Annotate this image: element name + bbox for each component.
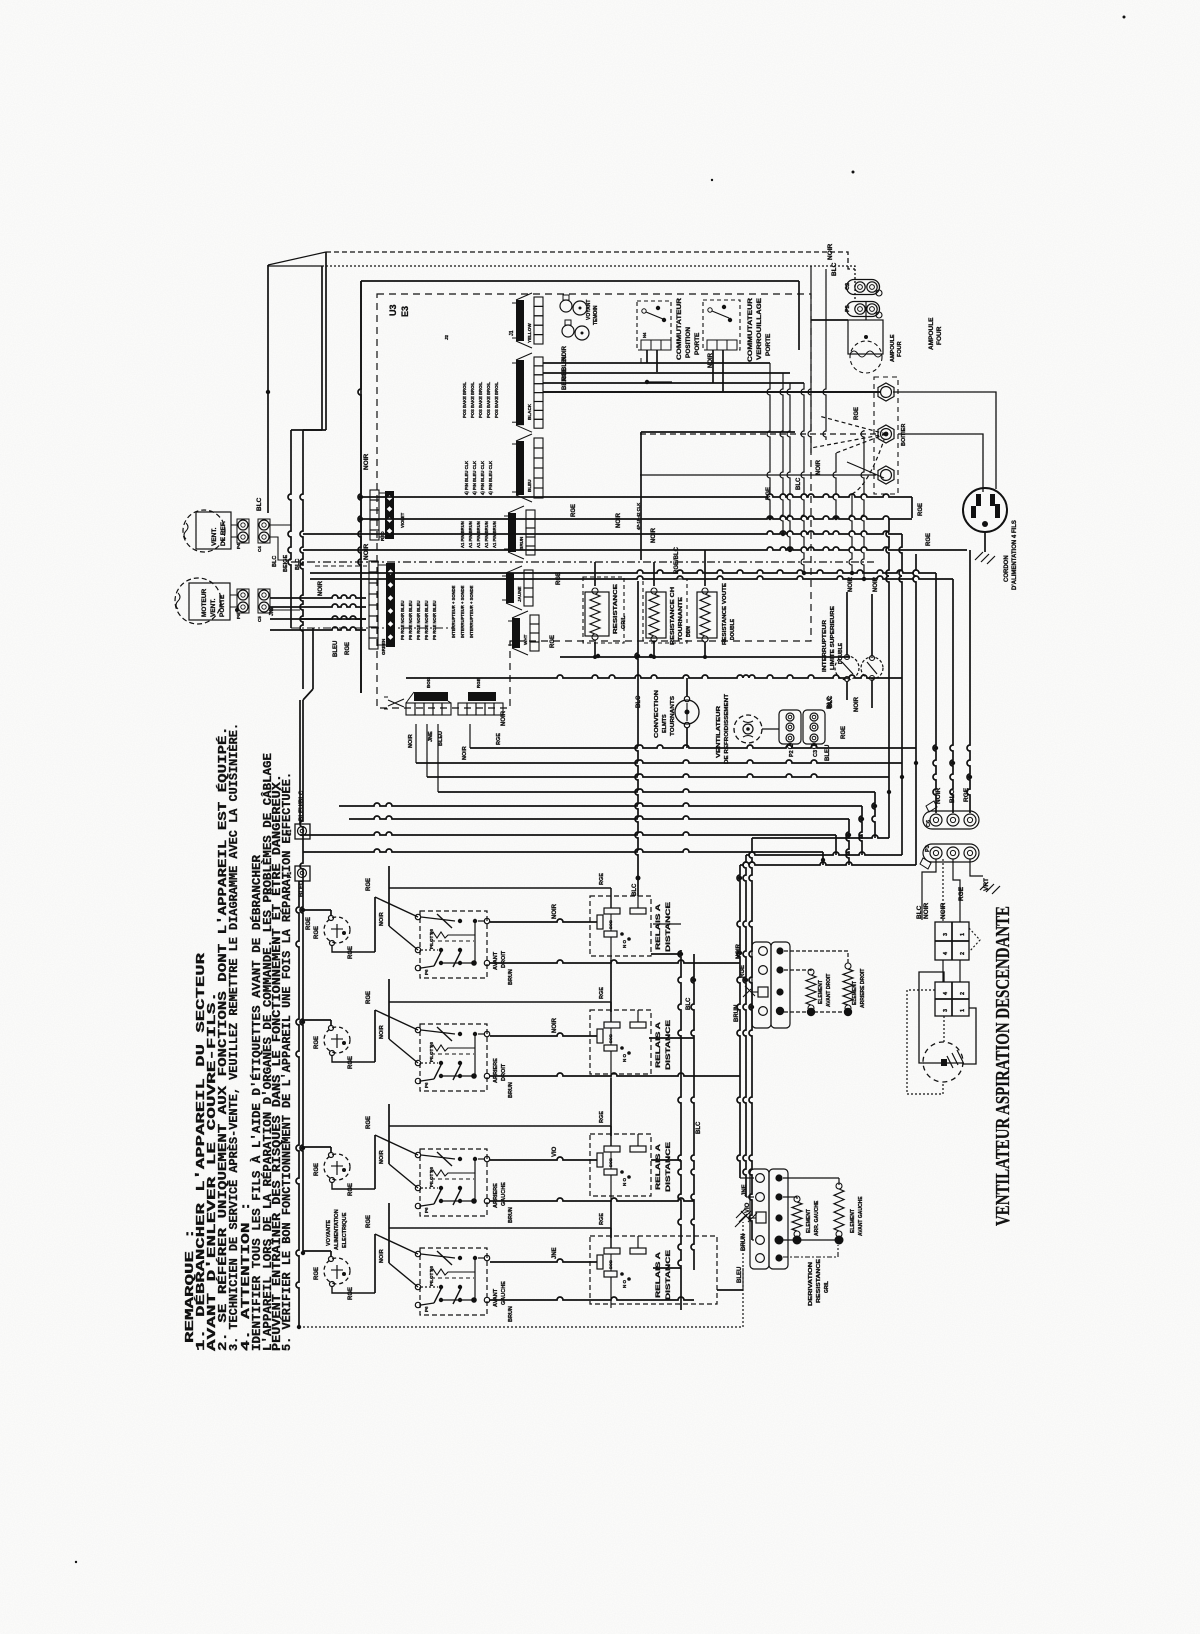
- svg-text:E3: E3: [400, 306, 410, 317]
- svg-text:FOUR: FOUR: [936, 326, 943, 345]
- resistor RESISTANCE VOUTE DOUBLE: [697, 592, 717, 638]
- svg-text:RGE: RGE: [366, 1215, 372, 1228]
- lamp VOYANT ALIMENTATION unit 4: [324, 1258, 350, 1284]
- svg-text:C3: C3: [813, 750, 819, 757]
- svg-text:U3: U3: [388, 304, 398, 316]
- wires to plug: [893, 392, 996, 489]
- svg-text:JAUNE: JAUNE: [517, 586, 522, 602]
- mid band horizontal bus wires: [361, 494, 912, 497]
- control board U3 dashed box: [377, 294, 811, 708]
- svg-text:ARRIERE: ARRIERE: [493, 1058, 499, 1083]
- wire left border path: [312, 628, 314, 689]
- switch PLAQUE P6 unit 4: [420, 1248, 487, 1315]
- svg-text:DOUBLE: DOUBLE: [838, 642, 844, 664]
- svg-text:RGE: RGE: [599, 1111, 605, 1123]
- indicator lamps VOYANT TEMOIN: [560, 300, 572, 312]
- svg-text:TOURNANTE: TOURNANTE: [678, 596, 684, 641]
- svg-text:P9 RGE NOIR BLEU: P9 RGE NOIR BLEU: [432, 600, 437, 640]
- svg-text:JNE: JNE: [428, 731, 434, 742]
- svg-text:BLACK: BLACK: [527, 403, 532, 420]
- wire relay bus verticals BLC: [678, 950, 681, 1310]
- svg-text:3. TECHNICIEN DE SERVICE APRÈ: 3. TECHNICIEN DE SERVICE APRÈS-VENTE, VE…: [227, 723, 241, 1351]
- svg-text:BRUN: BRUN: [508, 1306, 514, 1322]
- wires NOIR BLC RGE to connector C6: [933, 573, 936, 813]
- svg-text:RGE: RGE: [599, 987, 605, 999]
- svg-text:JNE: JNE: [742, 1184, 748, 1196]
- svg-text:RESISTANCE CH: RESISTANCE CH: [670, 586, 676, 645]
- svg-text:DROIT: DROIT: [501, 1063, 507, 1081]
- svg-text:GAUCHE: GAUCHE: [501, 1281, 507, 1305]
- svg-text:FOUR: FOUR: [897, 341, 903, 357]
- connector element block right + ELEMENT AVANT DROIT / ARRIERE DROIT resistors: [752, 942, 771, 1028]
- svg-text:VOYANT: VOYANT: [586, 300, 592, 320]
- svg-text:C1: C1: [287, 829, 293, 836]
- svg-text:BLC: BLC: [916, 905, 923, 919]
- svg-text:P6: P6: [424, 1207, 429, 1213]
- svg-text:VENTILATEUR: VENTILATEUR: [716, 706, 722, 758]
- svg-text:GRIL: GRIL: [621, 615, 627, 629]
- switch PLAQUE P6 unit 1: [420, 911, 487, 978]
- svg-text:4) PIN BLEU CLK: 4) PIN BLEU CLK: [472, 461, 477, 495]
- wires switch unit 2 to relay and element bus: [389, 1001, 611, 1003]
- svg-text:P6: P6: [424, 969, 429, 975]
- wire BLC junction node: [635, 581, 638, 878]
- svg-text:PORTE: PORTE: [219, 594, 226, 617]
- svg-text:DISTANCE: DISTANCE: [665, 901, 672, 952]
- svg-text:N O: N O: [622, 1178, 627, 1187]
- svg-text:N O: N O: [622, 1054, 627, 1063]
- connector BLEU strip: [534, 438, 543, 448]
- svg-text:DBN: DBN: [686, 626, 692, 637]
- motor MOTEUR VENT PORTE with connectors P5 C5: [175, 578, 221, 624]
- connector RED strip: [370, 490, 379, 500]
- svg-text:P4: P4: [236, 543, 241, 549]
- connector JAUNE strip: [524, 570, 533, 579]
- svg-text:RGE: RGE: [348, 1287, 354, 1300]
- svg-text:N O: N O: [622, 940, 627, 949]
- wire left bus verticals: [321, 266, 323, 430]
- svg-text:P1: P1: [287, 872, 293, 878]
- svg-text:INTERRUPTEUR + SONDE: INTERRUPTEUR + SONDE: [460, 585, 465, 638]
- switch PLAQUE P6 unit 2: [420, 1024, 487, 1091]
- svg-text:RGE: RGE: [306, 917, 312, 930]
- svg-text:P5: P5: [236, 613, 241, 619]
- connector element block left + ELEMENT ARR GAUCHE / AVANT GAUCHE resistors: [750, 1169, 769, 1269]
- relay RELAIS A DISTANCE unit 1: [590, 896, 651, 956]
- svg-text:CORDON: CORDON: [1004, 555, 1010, 582]
- svg-text:VENT.: VENT.: [211, 527, 218, 546]
- svg-text:NOIR: NOIR: [501, 710, 507, 726]
- svg-text:BLEU: BLEU: [438, 731, 444, 746]
- connector J1 YELLOW strip: [534, 297, 543, 306]
- wires switch unit 1 to relay and element bus: [389, 887, 611, 889]
- svg-text:N O: N O: [622, 1280, 627, 1289]
- relay RELAIS A DISTANCE unit 4: [590, 1236, 717, 1304]
- svg-text:NOIR: NOIR: [651, 527, 657, 543]
- svg-text:DISTANCE: DISTANCE: [665, 1141, 672, 1192]
- scan speck marks: [711, 179, 713, 181]
- svg-text:GRIL: GRIL: [824, 1281, 830, 1293]
- motor CONVECTION ELEMENTS TOURNANTS fan: [675, 700, 699, 724]
- svg-text:DERIVATION: DERIVATION: [808, 1261, 814, 1306]
- wires switch unit 3 to relay and element bus: [389, 1125, 611, 1127]
- svg-text:ELEMENT: ELEMENT: [806, 1209, 812, 1233]
- svg-text:ARRIERE DROIT: ARRIERE DROIT: [860, 969, 866, 1008]
- svg-text:4) PIN BLEU CLK: 4) PIN BLEU CLK: [464, 461, 469, 495]
- svg-text:P6: P6: [424, 1082, 429, 1088]
- svg-text:BRUN: BRUN: [734, 1005, 740, 1022]
- connector BLACK strip: [534, 357, 543, 366]
- control board E3 outline: [361, 280, 799, 282]
- svg-text:RGE: RGE: [599, 1213, 605, 1225]
- switch INTERRUPTEUR LIMITE SUPERIEURE DOUBLE: [835, 656, 859, 680]
- connector B1 bottom strip: [414, 692, 448, 701]
- wire bundle motors to GREEN strip: [270, 595, 366, 598]
- motor VENTILATEUR DE REFROIDISSEMENT + connectors P2 C3: [734, 715, 762, 743]
- connector GREEN strip: [369, 561, 378, 572]
- svg-text:RGE: RGE: [854, 407, 860, 420]
- svg-text:NOIR: NOIR: [854, 696, 860, 712]
- junction dots: [768, 516, 772, 520]
- svg-text:AVANT: AVANT: [493, 1288, 499, 1307]
- svg-text:C6: C6: [926, 820, 932, 827]
- svg-text:CONVECTION: CONVECTION: [654, 690, 660, 738]
- svg-text:J1: J1: [509, 330, 515, 336]
- svg-text:3: 3: [943, 933, 949, 936]
- svg-text:RELAIS A: RELAIS A: [655, 1252, 662, 1298]
- svg-text:RGE: RGE: [963, 787, 970, 802]
- svg-text:ARRIERE: ARRIERE: [493, 1183, 499, 1208]
- svg-text:BEIGE: BEIGE: [562, 371, 568, 390]
- svg-text:POS BAKE BROIL: POS BAKE BROIL: [462, 381, 467, 418]
- svg-text:RGE: RGE: [314, 1036, 320, 1049]
- svg-text:1: 1: [960, 1009, 966, 1012]
- svg-text:2: 2: [960, 992, 966, 995]
- svg-text:AVANT GAUCHE: AVANT GAUCHE: [858, 1196, 864, 1236]
- svg-text:VENTILATEUR ASPIRATION DESCEND: VENTILATEUR ASPIRATION DESCENDANTE: [992, 906, 1014, 1226]
- svg-text:VIO: VIO: [552, 1146, 558, 1157]
- vertical wires door-switch to mid band: [767, 363, 770, 518]
- svg-text:C4: C4: [257, 546, 262, 552]
- svg-text:RGE: RGE: [314, 926, 320, 939]
- svg-text:1: 1: [960, 933, 966, 936]
- svg-text:ELMTS: ELMTS: [662, 714, 668, 733]
- svg-text:ELECTRIQUE: ELECTRIQUE: [342, 1212, 348, 1248]
- svg-text:NOIR: NOIR: [318, 580, 324, 596]
- svg-text:DROIT: DROIT: [501, 950, 507, 968]
- svg-text:BRUN: BRUN: [508, 1207, 514, 1223]
- terminal block BOITIER: [874, 377, 898, 494]
- svg-text:RGE: RGE: [314, 1163, 320, 1176]
- svg-text:2: 2: [960, 952, 966, 955]
- wire BLC top bus: [322, 266, 855, 302]
- svg-text:BLEU: BLEU: [333, 641, 339, 657]
- connector C1 P1 BLEU/BLC: [295, 824, 310, 839]
- svg-text:RGE: RGE: [366, 1116, 372, 1129]
- svg-text:NOIR: NOIR: [827, 243, 834, 260]
- svg-text:INTERRUPTEUR + SONDE: INTERRUPTEUR + SONDE: [469, 585, 474, 638]
- svg-text:RGE: RGE: [366, 878, 372, 891]
- svg-text:RELAIS A: RELAIS A: [655, 1144, 662, 1190]
- svg-text:TOURNANTS: TOURNANTS: [670, 696, 676, 736]
- svg-text:DISTANCE: DISTANCE: [665, 1019, 672, 1070]
- svg-text:RGE: RGE: [841, 726, 847, 739]
- svg-text:AMPOULE: AMPOULE: [890, 334, 896, 362]
- svg-text:RELAIS A: RELAIS A: [655, 904, 662, 950]
- resistor RESISTANCE CHALEUR TOURNANTE: [643, 579, 687, 643]
- wire fan from boitier nut: [819, 416, 886, 434]
- svg-text:BLEU: BLEU: [299, 881, 305, 897]
- svg-text:P3: P3: [925, 845, 931, 852]
- svg-text:NOIR: NOIR: [363, 453, 370, 470]
- svg-text:VERROUILLAGE: VERROUILLAGE: [756, 297, 763, 360]
- wire left bus hooks: [268, 265, 322, 267]
- svg-text:BLEU: BLEU: [825, 745, 831, 761]
- svg-text:NOIR: NOIR: [552, 903, 558, 919]
- svg-text:POS BAKE BROIL: POS BAKE BROIL: [478, 381, 483, 418]
- svg-text:4) PIN BLEU CLK: 4) PIN BLEU CLK: [480, 461, 485, 495]
- svg-text:RESISTANCE VOUTE: RESISTANCE VOUTE: [722, 582, 728, 645]
- svg-text:RGE: RGE: [314, 1267, 320, 1280]
- wires B1 B2 feeders and staircase bus: [469, 724, 471, 748]
- svg-text:BLC: BLC: [831, 262, 838, 276]
- svg-text:BRUN: BRUN: [508, 1082, 514, 1098]
- svg-text:NOIR: NOIR: [923, 902, 930, 919]
- wires switch unit 4 to relay and element bus: [389, 1227, 611, 1229]
- svg-text:INTERRUPTEUR + SONDE: INTERRUPTEUR + SONDE: [451, 585, 456, 638]
- svg-text:POS BAKE BROIL: POS BAKE BROIL: [470, 381, 475, 418]
- svg-text:BLC: BLC: [696, 1121, 702, 1134]
- svg-text:P9 RGE NOIR BLEU: P9 RGE NOIR BLEU: [400, 600, 405, 640]
- plug CORDON D ALIMENTATION with ground: [963, 488, 1007, 532]
- svg-text:4) PIN BLEU CLK: 4) PIN BLEU CLK: [488, 461, 493, 495]
- svg-text:J2: J2: [444, 334, 449, 340]
- wires below door switches: [646, 350, 648, 363]
- lamp VOYANT ALIMENTATION unit 3: [324, 1154, 350, 1180]
- svg-text:POSITION: POSITION: [685, 327, 692, 358]
- svg-text:NOIR: NOIR: [816, 459, 822, 475]
- svg-text:RGE: RGE: [599, 873, 605, 885]
- svg-text:C5: C5: [257, 616, 262, 622]
- svg-text:RELAIS A: RELAIS A: [655, 1022, 662, 1068]
- svg-text:BLC: BLC: [686, 997, 692, 1010]
- svg-text:P9 RGE NOIR BLEU: P9 RGE NOIR BLEU: [424, 600, 429, 640]
- svg-text:NOIR: NOIR: [616, 512, 622, 528]
- svg-text:P9 RGE NOIR BLEU: P9 RGE NOIR BLEU: [408, 600, 413, 640]
- svg-text:3: 3: [943, 1009, 949, 1012]
- svg-text:ARR. GAUCHE: ARR. GAUCHE: [814, 1200, 820, 1236]
- switch COMMUTATEUR VERROUILLAGE PORTE: [703, 300, 740, 350]
- svg-text:VENT.: VENT.: [210, 598, 217, 617]
- switch COMMUTATEUR POSITION PORTE: [637, 301, 671, 350]
- connector B2 bottom strip: [468, 692, 496, 701]
- lamp VOYANT ALIMENTATION unit 1: [324, 917, 350, 943]
- svg-text:RGE: RGE: [571, 504, 577, 517]
- svg-text:RED: RED: [380, 531, 385, 541]
- svg-text:D'ALIMENTATION 4 FILS: D'ALIMENTATION 4 FILS: [1012, 520, 1018, 590]
- svg-text:C2: C2: [845, 283, 851, 290]
- svg-text:VIOLET: VIOLET: [400, 512, 405, 528]
- svg-text:AVANT DROIT: AVANT DROIT: [826, 974, 832, 1007]
- svg-text:BLC: BLC: [949, 789, 956, 803]
- svg-text:DE REF.: DE REF.: [220, 521, 227, 546]
- svg-text:LIMITE SUPERIEURE: LIMITE SUPERIEURE: [830, 605, 836, 670]
- svg-text:PORTE: PORTE: [765, 333, 772, 356]
- svg-text:DOUBLE: DOUBLE: [730, 618, 736, 640]
- svg-text:NOIR: NOIR: [379, 1249, 385, 1263]
- relay RELAIS A DISTANCE unit 2: [590, 1010, 651, 1074]
- svg-text:RGE/BLC: RGE/BLC: [674, 546, 680, 574]
- svg-text:RGE: RGE: [550, 635, 556, 648]
- svg-text:NOIR: NOIR: [940, 902, 947, 919]
- resistor RESISTANCE GRIL: [583, 577, 624, 643]
- svg-text:ELEMENT: ELEMENT: [818, 980, 824, 1004]
- svg-text:GAUCHE: GAUCHE: [501, 1182, 507, 1206]
- svg-text:RGE: RGE: [918, 503, 924, 516]
- svg-text:VOYANTE: VOYANTE: [326, 1220, 332, 1246]
- svg-text:N4: N4: [642, 332, 647, 338]
- svg-text:RESISTANCE: RESISTANCE: [816, 1258, 822, 1303]
- svg-text:NOIR: NOIR: [935, 787, 942, 804]
- svg-text:NOIR: NOIR: [462, 746, 468, 760]
- svg-text:P2: P2: [789, 750, 795, 757]
- svg-text:ALIMENTATION: ALIMENTATION: [334, 1209, 340, 1250]
- svg-text:RGE: RGE: [926, 533, 932, 546]
- svg-text:AVANT: AVANT: [493, 951, 499, 970]
- svg-text:RGE: RGE: [348, 946, 354, 959]
- wire NOIR top bus: [326, 252, 855, 269]
- svg-text:BLC: BLC: [827, 696, 833, 709]
- svg-text:PORTE: PORTE: [694, 332, 701, 355]
- svg-text:INTERRUPTEUR: INTERRUPTEUR: [822, 619, 828, 672]
- svg-text:ELEMENT: ELEMENT: [852, 981, 858, 1005]
- connector C2 / P2 oven lamp receptacles: [847, 280, 880, 295]
- lamp AMPOULE FOUR: [848, 320, 883, 354]
- connector WHITE strip: [530, 615, 539, 624]
- svg-text:TEMOIN: TEMOIN: [593, 305, 599, 325]
- svg-text:JNE: JNE: [552, 1247, 558, 1259]
- connector P3: [923, 844, 979, 862]
- svg-text:NOIR: NOIR: [379, 1150, 385, 1164]
- svg-text:BLC: BLC: [272, 556, 278, 567]
- terminal block 4-2-3-1: [935, 982, 969, 1016]
- svg-text:P6: P6: [424, 1306, 429, 1312]
- svg-text:BRUN: BRUN: [741, 1234, 747, 1251]
- svg-text:BLC: BLC: [636, 695, 642, 708]
- terminal block 3-1-4-2: [935, 922, 969, 960]
- svg-text:BRUN: BRUN: [519, 536, 524, 550]
- wire bottom border with ground: [299, 1326, 743, 1328]
- motor downdraft fan: [923, 1042, 963, 1082]
- svg-text:BLEU: BLEU: [527, 479, 532, 492]
- svg-text:BOITIER: BOITIER: [901, 424, 907, 446]
- connector BRUN strip: [526, 510, 535, 519]
- svg-text:DE REFROIDISSEMENT: DE REFROIDISSEMENT: [724, 693, 730, 764]
- relay RELAIS A DISTANCE unit 3: [590, 1134, 651, 1196]
- oven section box corner: [641, 431, 795, 433]
- wires P3 to terminal blocks and ground VRT: [922, 859, 936, 920]
- svg-text:NOIR: NOIR: [379, 912, 385, 926]
- svg-text:RGE: RGE: [740, 965, 746, 978]
- lamp VOYANT ALIMENTATION unit 2: [324, 1027, 350, 1053]
- svg-text:GREEN: GREEN: [381, 638, 386, 655]
- svg-text:YELLOW: YELLOW: [527, 323, 532, 343]
- svg-text:5. VÉRIFIER LE BON FONCTIONNE: 5. VÉRIFIER LE BON FONCTIONNEMENT DE L'A…: [280, 772, 294, 1351]
- svg-text:NOIR: NOIR: [848, 576, 854, 592]
- svg-text:BRUN: BRUN: [508, 969, 514, 985]
- svg-text:RGE: RGE: [345, 642, 351, 655]
- svg-text:VRT: VRT: [983, 878, 990, 891]
- svg-text:DISTANCE: DISTANCE: [665, 1249, 672, 1300]
- svg-text:NOIR: NOIR: [408, 734, 414, 748]
- svg-text:RGE: RGE: [366, 991, 372, 1004]
- svg-text:BLC: BLC: [632, 883, 638, 896]
- svg-text:POS BAKE BROIL: POS BAKE BROIL: [486, 381, 491, 418]
- svg-text:WHT: WHT: [523, 634, 528, 645]
- wire resistor bottoms link: [560, 656, 850, 658]
- svg-text:BLC: BLC: [796, 477, 802, 490]
- svg-text:P9 RGE NOIR BLEU: P9 RGE NOIR BLEU: [416, 600, 421, 640]
- svg-text:NOIR: NOIR: [379, 1025, 385, 1039]
- svg-text:NOIR: NOIR: [552, 1017, 558, 1033]
- svg-text:BLC: BLC: [256, 497, 263, 511]
- svg-text:RGE: RGE: [496, 733, 502, 745]
- motor VENT DE REF with connectors P4 C4: [183, 510, 225, 552]
- svg-text:ELEMENT: ELEMENT: [850, 1209, 856, 1233]
- svg-text:RGE: RGE: [958, 886, 965, 901]
- svg-text:POS BAKE BROIL: POS BAKE BROIL: [494, 381, 499, 418]
- svg-text:NOIR: NOIR: [363, 543, 370, 560]
- svg-text:RGE: RGE: [476, 678, 481, 688]
- svg-text:RGE: RGE: [348, 1183, 354, 1196]
- svg-text:AMPOULE: AMPOULE: [928, 317, 935, 350]
- svg-text:COMMUTATEUR: COMMUTATEUR: [676, 298, 683, 360]
- svg-text:RESISTANCE: RESISTANCE: [613, 584, 619, 634]
- svg-text:NOIR: NOIR: [873, 576, 879, 592]
- svg-text:P2: P2: [845, 305, 851, 312]
- switch PLAQUE P6 unit 3: [420, 1149, 487, 1216]
- svg-text:MOTEUR: MOTEUR: [201, 589, 208, 617]
- svg-text:BLEU: BLEU: [737, 1267, 743, 1283]
- svg-text:COMMUTATEUR: COMMUTATEUR: [747, 298, 754, 362]
- svg-text:RGE: RGE: [348, 1056, 354, 1069]
